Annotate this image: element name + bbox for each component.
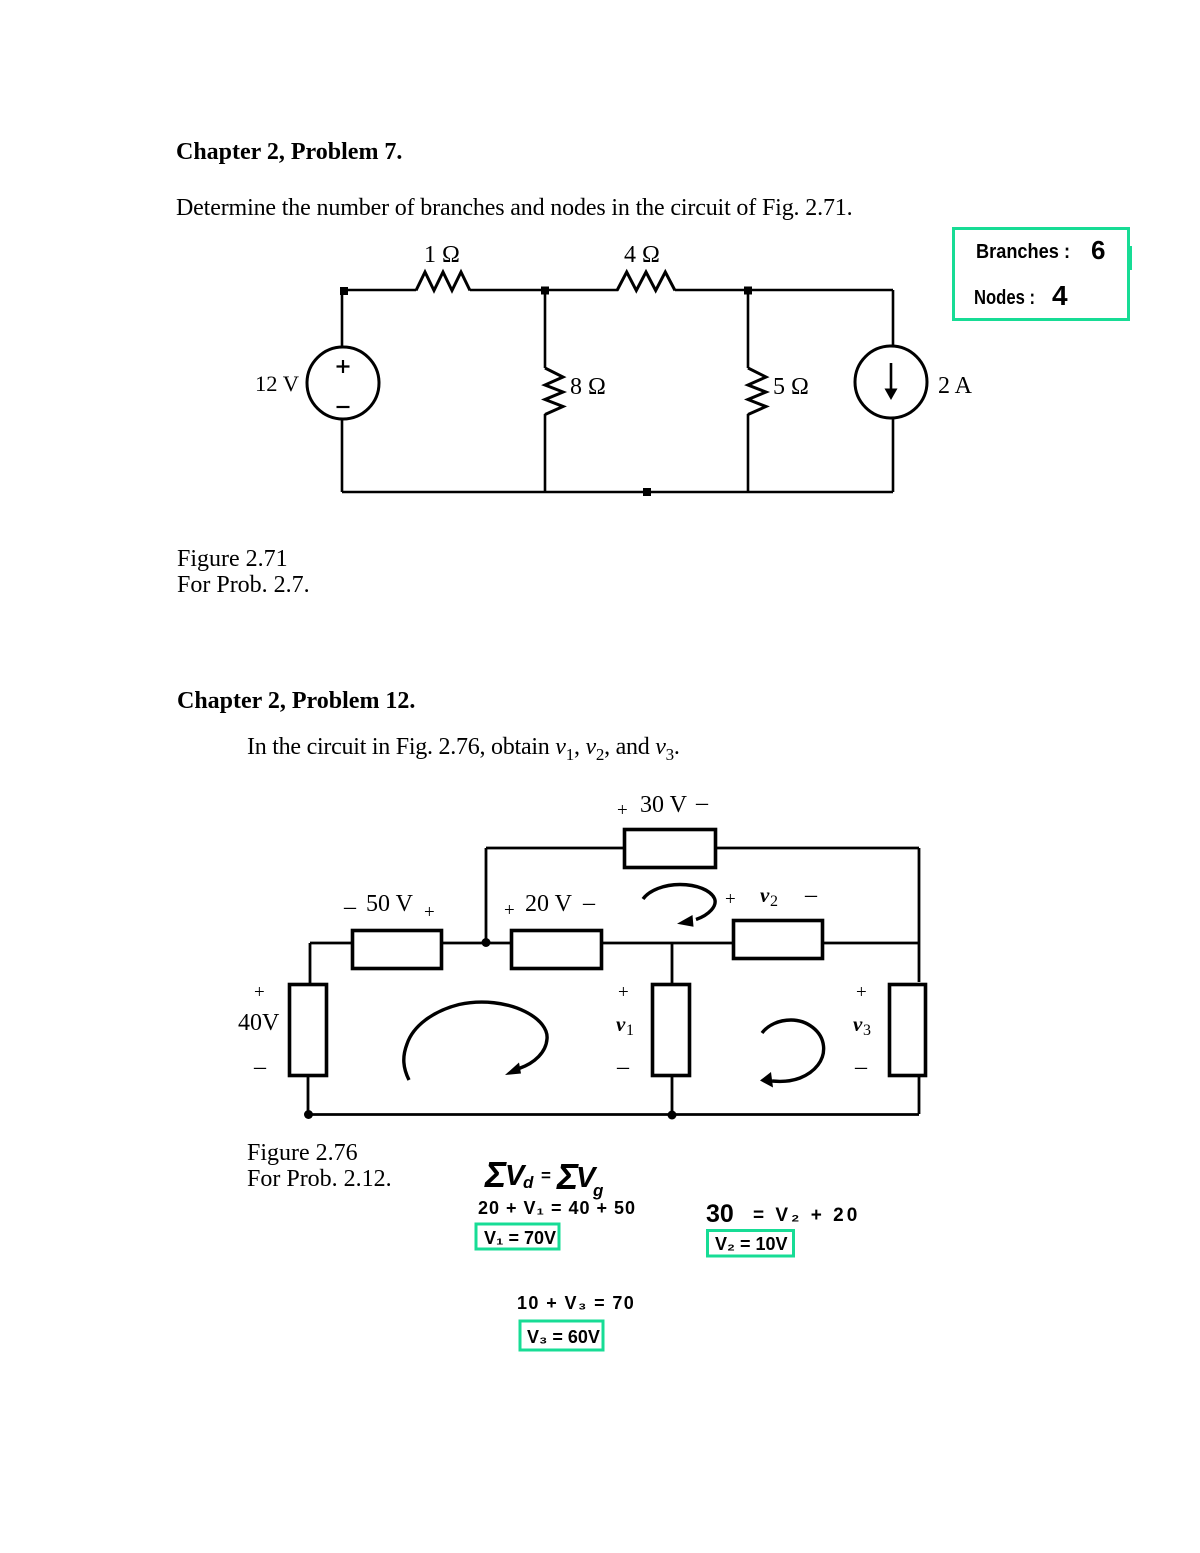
- caption Figure 2.71: [177, 547, 288, 571]
- handwritten sum equation: [484, 1154, 604, 1200]
- svg-text:8 Ω: 8 Ω: [570, 374, 606, 400]
- answer box V1 = 70V: [476, 1224, 559, 1249]
- wire top rail left of 30V box: [486, 847, 623, 850]
- wire left vertical below source: [341, 419, 344, 492]
- handwritten 10 + V3 = 70: [517, 1293, 635, 1313]
- resistor box v2: [734, 921, 823, 959]
- svg-text:Nodes :: Nodes :: [974, 287, 1035, 309]
- svg-text:v: v: [760, 883, 770, 907]
- mesh arrow loop 1 (left, clockwise): [404, 1002, 547, 1080]
- svg-text:+: +: [617, 800, 628, 821]
- svg-text:50 V: 50 V: [366, 891, 414, 917]
- svg-text:+: +: [254, 982, 265, 1003]
- wire left vertical below 40V box: [307, 1075, 310, 1114]
- node B junction dot top middle: [541, 287, 549, 295]
- svg-text:2: 2: [770, 893, 778, 910]
- svg-text:Σ: Σ: [484, 1154, 507, 1195]
- wire bottom rail: [342, 491, 893, 494]
- svg-text:+: +: [725, 889, 736, 910]
- voltage source V1 12V circle: [307, 347, 379, 419]
- caption For Prob. 2.12.: [247, 1167, 392, 1191]
- wire right vertical below v3 box: [918, 1075, 921, 1114]
- wire right vertical below current source: [892, 418, 895, 492]
- wire 1-ohm to node B: [470, 289, 618, 292]
- resistor R 1ohm zigzag: [416, 272, 470, 291]
- resistor R 8ohm vertical zigzag: [545, 368, 563, 415]
- paragraph problem 12 statement: [247, 735, 680, 763]
- svg-text:1 Ω: 1 Ω: [424, 242, 460, 268]
- node C junction dot top right-middle: [744, 287, 752, 295]
- svg-text:20 V: 20 V: [525, 891, 573, 917]
- answer box V3 = 60V: [520, 1321, 603, 1350]
- label 4 ohm: [624, 242, 660, 268]
- wire middle vertical lower: [544, 414, 547, 492]
- mesh arrow loop 3 (right, clockwise): [760, 1020, 824, 1088]
- resistor box v3 vertical: [890, 985, 926, 1076]
- svg-text:v: v: [853, 1012, 863, 1036]
- svg-text:6: 6: [1091, 235, 1105, 265]
- wire right vertical top to v3: [918, 848, 921, 982]
- resistor R 4ohm zigzag: [617, 272, 675, 291]
- node bottom-middle junction dot: [668, 1111, 677, 1120]
- wire left vertical main rail to 40V box: [309, 943, 312, 984]
- handwritten Branches: 6: [976, 235, 1105, 265]
- svg-text:–: –: [695, 790, 709, 816]
- label +v2-: [725, 882, 818, 910]
- heading Chapter 2, Problem 12.: [177, 689, 415, 713]
- svg-text:1: 1: [626, 1022, 634, 1039]
- svg-text:30: 30: [706, 1200, 734, 1228]
- svg-text:4 Ω: 4 Ω: [624, 242, 660, 268]
- svg-text:+: +: [618, 982, 629, 1003]
- svg-text:12 V: 12 V: [255, 371, 299, 396]
- svg-text:–: –: [804, 882, 818, 908]
- resistor box 20V: [512, 931, 602, 969]
- svg-text:4: 4: [1052, 280, 1068, 311]
- node top-left junction dot: [340, 287, 348, 295]
- svg-text:=: =: [541, 1166, 551, 1185]
- label 8 ohm: [570, 374, 606, 400]
- heading Chapter 2, Problem 7.: [176, 140, 402, 164]
- caption Figure 2.76: [247, 1141, 358, 1165]
- svg-text:–: –: [343, 894, 357, 920]
- svg-text:–: –: [616, 1054, 630, 1080]
- answer box green rectangle: [954, 229, 1133, 320]
- svg-text:20 + V₁ = 40 + 50: 20 + V₁ = 40 + 50: [478, 1198, 636, 1218]
- resistor box 40V vertical: [290, 985, 327, 1076]
- label -50V+: [343, 891, 435, 923]
- svg-text:30 V: 30 V: [640, 792, 688, 818]
- svg-text:+: +: [504, 900, 515, 921]
- svg-text:10 + V₃ = 70: 10 + V₃ = 70: [517, 1293, 635, 1313]
- svg-text:5 Ω: 5 Ω: [773, 374, 809, 400]
- svg-text:–: –: [582, 890, 596, 916]
- mesh arrow loop 2 (top middle, clockwise): [643, 885, 715, 927]
- svg-text:= V₂ + 20: = V₂ + 20: [753, 1205, 860, 1226]
- handwritten Nodes: 4: [974, 280, 1068, 311]
- node bottom-left junction dot: [304, 1110, 313, 1119]
- svg-text:v: v: [616, 1012, 626, 1036]
- svg-text:3: 3: [863, 1022, 871, 1039]
- svg-text:V₃ = 60V: V₃ = 60V: [527, 1327, 600, 1347]
- label +30V-: [617, 790, 709, 821]
- svg-text:V₁ = 70V: V₁ = 70V: [484, 1228, 556, 1248]
- label 40V with +/-: [238, 982, 280, 1080]
- svg-text:–: –: [253, 1054, 267, 1080]
- svg-text:d: d: [523, 1173, 534, 1192]
- wire top left: node A to 1-ohm: [342, 289, 416, 292]
- resistor box v1 vertical: [653, 985, 690, 1076]
- wire main rail left segment: [310, 942, 351, 945]
- node bottom junction dot: [643, 488, 651, 496]
- svg-text:40V: 40V: [238, 1010, 280, 1036]
- wire right vertical above current source: [892, 290, 895, 346]
- svg-text:V₂ = 10V: V₂ = 10V: [715, 1234, 788, 1254]
- wire second vertical lower: [747, 414, 750, 492]
- wire main rail v2 to right vertical: [822, 942, 919, 945]
- node P junction dot on main rail: [482, 938, 491, 947]
- answer box V2 = 10V: [708, 1231, 794, 1257]
- wire v1 branch vertical upper: [671, 943, 674, 984]
- svg-text:+: +: [856, 982, 867, 1003]
- wire main rail 20V to v2: [601, 942, 733, 945]
- label 1 ohm: [424, 242, 460, 268]
- label 12 V: [255, 371, 299, 396]
- label v3 with +/-: [853, 982, 871, 1080]
- resistor R 5ohm vertical zigzag: [748, 368, 766, 415]
- svg-text:+: +: [424, 902, 435, 923]
- current source I1 2A circle with down arrow: [855, 346, 927, 418]
- svg-text:–: –: [854, 1054, 868, 1080]
- caption For Prob. 2.7.: [177, 573, 310, 597]
- svg-text:Branches :: Branches :: [976, 241, 1070, 263]
- label v1 with +/-: [616, 982, 634, 1080]
- wire bottom rail: [308, 1113, 919, 1116]
- wire v1 branch vertical lower: [671, 1075, 674, 1114]
- label 5 ohm: [773, 374, 809, 400]
- handwritten 30 = V2 + 20: [706, 1200, 860, 1228]
- svg-text:2 A: 2 A: [938, 373, 973, 399]
- paragraph problem 7 statement: [176, 196, 853, 220]
- wire second vertical upper: [747, 290, 750, 368]
- label +20V-: [504, 890, 596, 921]
- resistor box 30V: [625, 830, 716, 868]
- wire 4-ohm to top right corner: [675, 289, 893, 292]
- label 2 A: [938, 373, 973, 399]
- wire branch vertical at node P: [485, 848, 488, 942]
- wire main rail 50V to 20V: [441, 942, 511, 945]
- resistor box 50V: [353, 931, 442, 969]
- wire left vertical above source: [341, 290, 344, 347]
- wire top rail right of 30V box: [716, 847, 919, 850]
- handwritten 20 + V1 = 40 + 50: [478, 1198, 636, 1218]
- wire middle vertical upper: [544, 290, 547, 368]
